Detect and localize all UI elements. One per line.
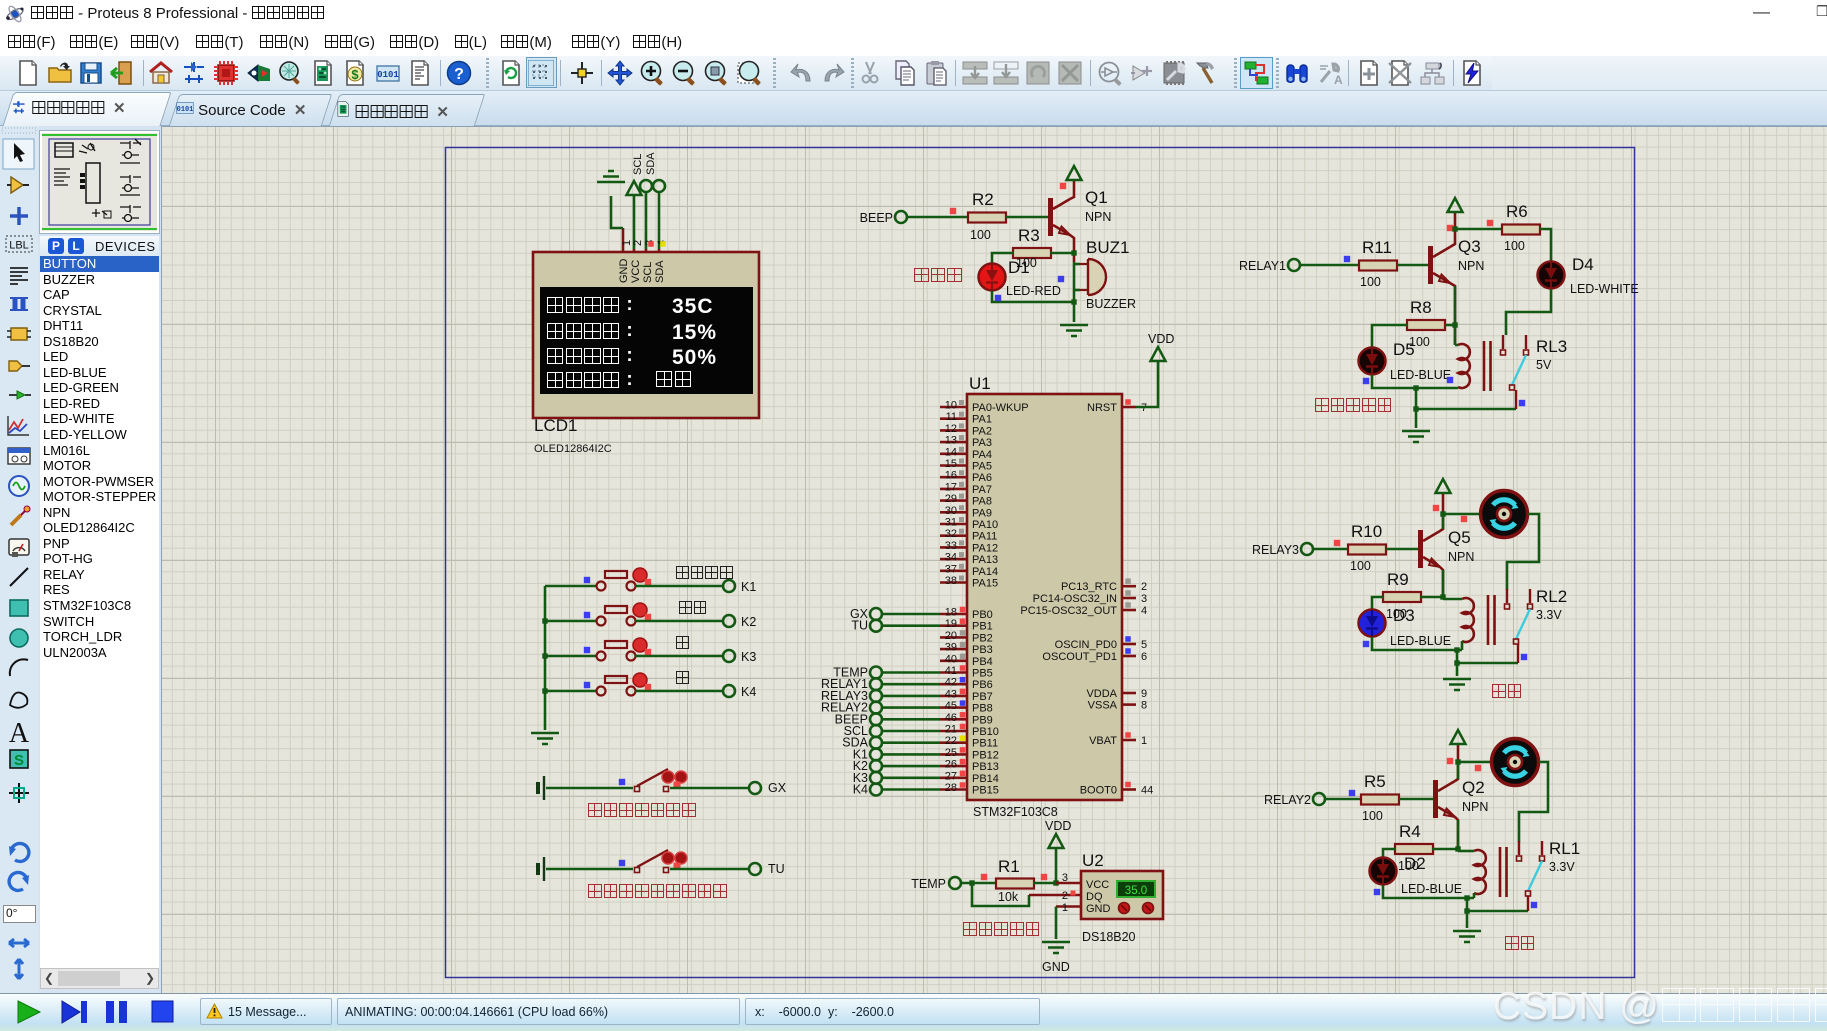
svg-text:K3: K3 (741, 650, 756, 664)
svg-text:LCD1: LCD1 (534, 416, 577, 435)
svg-text:0101: 0101 (377, 70, 399, 80)
svg-text:BOOT0: BOOT0 (1080, 785, 1117, 797)
svg-text:8: 8 (1141, 700, 1147, 712)
svg-text:NPN: NPN (1448, 550, 1474, 564)
svg-text:38: 38 (945, 575, 957, 587)
svg-text:6: 6 (1141, 651, 1147, 663)
svg-text:NPN: NPN (1462, 800, 1488, 814)
svg-text:27: 27 (945, 770, 957, 782)
svg-text:DQ: DQ (1086, 891, 1103, 903)
svg-text:VDD: VDD (1045, 819, 1071, 833)
svg-text:3: 3 (1141, 593, 1147, 605)
svg-text:LED-WHITE: LED-WHITE (1570, 282, 1639, 296)
svg-text:PA7: PA7 (972, 484, 992, 496)
svg-text:PB15: PB15 (972, 785, 999, 797)
svg-text:PA13: PA13 (972, 554, 998, 566)
svg-text:37: 37 (945, 563, 957, 575)
svg-text:GND: GND (618, 259, 630, 284)
svg-text:?: ? (454, 66, 464, 83)
svg-text:VBAT: VBAT (1089, 735, 1117, 747)
svg-text:28: 28 (945, 782, 957, 794)
svg-text:PA2: PA2 (972, 425, 992, 437)
svg-text:VCC: VCC (1086, 879, 1109, 891)
svg-text:K2: K2 (741, 615, 756, 629)
svg-text:D3: D3 (1393, 606, 1415, 625)
svg-text:40: 40 (945, 653, 957, 665)
svg-text:0101: 0101 (177, 106, 194, 114)
svg-text:SCL: SCL (632, 154, 644, 175)
svg-text:SCL: SCL (642, 262, 654, 283)
svg-text:LBL: LBL (9, 240, 29, 252)
svg-text:VSSA: VSSA (1088, 700, 1118, 712)
svg-text:Q2: Q2 (1462, 778, 1485, 797)
svg-text:11: 11 (946, 411, 957, 423)
svg-text:BUZ1: BUZ1 (1086, 238, 1129, 257)
svg-text:1: 1 (1141, 735, 1147, 747)
svg-text:4: 4 (1141, 605, 1147, 617)
svg-text:21: 21 (945, 724, 957, 736)
svg-text:10: 10 (945, 400, 957, 412)
svg-text:5V: 5V (1536, 358, 1552, 372)
svg-text:22: 22 (945, 735, 957, 747)
svg-text:PB6: PB6 (972, 679, 993, 691)
svg-text:29: 29 (945, 493, 957, 505)
svg-text:SDA: SDA (654, 260, 666, 283)
svg-text:R4: R4 (1399, 822, 1421, 841)
svg-text:33: 33 (945, 540, 957, 552)
svg-text:R3: R3 (1018, 226, 1040, 245)
svg-text:STM32F103C8: STM32F103C8 (973, 805, 1058, 819)
svg-text:PB7: PB7 (972, 691, 993, 703)
svg-text:$: $ (351, 67, 359, 82)
svg-text:PC15-OSC32_OUT: PC15-OSC32_OUT (1020, 605, 1117, 617)
svg-text:PA8: PA8 (972, 496, 992, 508)
svg-text:100: 100 (970, 228, 991, 242)
svg-text:GX: GX (768, 781, 787, 795)
svg-text:20: 20 (945, 630, 957, 642)
svg-text:R10: R10 (1351, 522, 1382, 541)
svg-text:NPN: NPN (1085, 210, 1111, 224)
svg-text:VDD: VDD (1148, 332, 1174, 346)
svg-text:Q1: Q1 (1085, 188, 1108, 207)
svg-text:RELAY3: RELAY3 (1252, 543, 1299, 557)
svg-text:35.0: 35.0 (1125, 885, 1147, 897)
svg-text:41: 41 (945, 665, 957, 677)
svg-text:PB3: PB3 (972, 644, 993, 656)
svg-text:PA5: PA5 (972, 461, 992, 473)
svg-text:K4: K4 (741, 685, 756, 699)
svg-text:30: 30 (945, 505, 957, 517)
svg-text:LED-BLUE: LED-BLUE (1390, 634, 1451, 648)
svg-text:100: 100 (1504, 239, 1525, 253)
svg-text:PB2: PB2 (972, 632, 993, 644)
svg-text:PA9: PA9 (972, 507, 992, 519)
svg-text:19: 19 (945, 618, 957, 630)
svg-text:R2: R2 (972, 190, 994, 209)
svg-text:PA15: PA15 (972, 578, 998, 590)
svg-text:NPN: NPN (1458, 259, 1484, 273)
svg-text:PA1: PA1 (972, 414, 992, 426)
svg-text:D2: D2 (1404, 854, 1426, 873)
svg-text:16: 16 (945, 470, 957, 482)
svg-text:PA6: PA6 (972, 472, 992, 484)
svg-text:U1: U1 (969, 374, 991, 393)
svg-text:15: 15 (945, 458, 957, 470)
svg-text:BEEP: BEEP (860, 211, 893, 225)
svg-text:14: 14 (945, 446, 957, 458)
svg-text:PA14: PA14 (972, 566, 998, 578)
svg-text:LED-BLUE: LED-BLUE (1401, 882, 1462, 896)
svg-text:2: 2 (1062, 890, 1068, 902)
svg-text:13: 13 (945, 435, 957, 447)
svg-text:100: 100 (1360, 275, 1381, 289)
svg-text:34: 34 (945, 552, 957, 564)
svg-text:GND: GND (1086, 903, 1111, 915)
svg-text:43: 43 (945, 688, 957, 700)
svg-text:U2: U2 (1082, 851, 1104, 870)
svg-text:1: 1 (1062, 902, 1068, 914)
svg-text:D4: D4 (1572, 255, 1594, 274)
svg-text:BUZZER: BUZZER (1086, 297, 1136, 311)
svg-text:26: 26 (945, 759, 957, 771)
svg-text:R9: R9 (1387, 570, 1409, 589)
svg-text:OSCOUT_PD1: OSCOUT_PD1 (1042, 651, 1117, 663)
svg-text:TU: TU (851, 619, 868, 633)
svg-text:R11: R11 (1362, 238, 1392, 257)
svg-text:100: 100 (1362, 809, 1383, 823)
svg-text:GND: GND (1042, 960, 1070, 974)
svg-text:VDDA: VDDA (1086, 688, 1117, 700)
svg-text:17: 17 (945, 481, 957, 493)
svg-text:10k: 10k (998, 890, 1019, 904)
svg-text:45: 45 (945, 700, 957, 712)
svg-text:39: 39 (945, 642, 957, 654)
svg-text:A: A (9, 718, 30, 749)
svg-text:OSCIN_PD0: OSCIN_PD0 (1055, 639, 1117, 651)
svg-text:LED-BLUE: LED-BLUE (1390, 368, 1451, 382)
svg-text:D1: D1 (1008, 258, 1030, 277)
svg-text:PB5: PB5 (972, 668, 993, 680)
svg-text:PB8: PB8 (972, 703, 993, 715)
svg-text:A: A (1334, 73, 1343, 86)
svg-text:PA12: PA12 (972, 542, 998, 554)
svg-text:DS18B20: DS18B20 (1082, 930, 1136, 944)
svg-text:OLED12864I2C: OLED12864I2C (534, 443, 612, 455)
svg-text:PB14: PB14 (972, 773, 999, 785)
svg-text:D5: D5 (1393, 340, 1415, 359)
svg-text:RELAY1: RELAY1 (1239, 259, 1286, 273)
svg-text:PB1: PB1 (972, 621, 993, 633)
svg-text:PA3: PA3 (972, 437, 992, 449)
svg-text:PB0: PB0 (972, 609, 993, 621)
svg-text:18: 18 (945, 607, 957, 619)
svg-text:PC13_RTC: PC13_RTC (1061, 581, 1117, 593)
svg-text:RL1: RL1 (1549, 839, 1580, 858)
svg-text:PB4: PB4 (972, 656, 993, 668)
svg-text:PA10: PA10 (972, 519, 998, 531)
svg-text:R1: R1 (998, 857, 1020, 876)
svg-text:2: 2 (632, 240, 644, 246)
svg-text:Q3: Q3 (1458, 237, 1481, 256)
svg-text:PA11: PA11 (972, 531, 997, 543)
svg-text:Q5: Q5 (1448, 528, 1471, 547)
svg-text:NRST: NRST (1087, 402, 1117, 414)
svg-text:K1: K1 (741, 580, 756, 594)
svg-text:46: 46 (945, 712, 957, 724)
svg-text:PA4: PA4 (972, 449, 992, 461)
svg-text:RL2: RL2 (1536, 587, 1567, 606)
svg-text:2: 2 (1141, 581, 1147, 593)
svg-text:SDA: SDA (645, 152, 657, 175)
svg-text:44: 44 (1141, 785, 1153, 797)
svg-text:TEMP: TEMP (911, 877, 946, 891)
svg-text:31: 31 (945, 517, 957, 529)
svg-text:32: 32 (945, 528, 957, 540)
svg-text:100: 100 (1350, 559, 1371, 573)
svg-text:PB11: PB11 (972, 738, 998, 750)
svg-text:42: 42 (945, 677, 957, 689)
svg-text:5: 5 (1141, 639, 1147, 651)
svg-text:PB12: PB12 (972, 749, 999, 761)
svg-text:RELAY2: RELAY2 (1264, 793, 1311, 807)
svg-text:R5: R5 (1364, 772, 1386, 791)
svg-text:PB13: PB13 (972, 761, 999, 773)
svg-text:3: 3 (1062, 872, 1068, 884)
svg-text:3.3V: 3.3V (1549, 860, 1575, 874)
svg-text:R6: R6 (1506, 202, 1528, 221)
svg-text:PB9: PB9 (972, 714, 993, 726)
svg-text:PA0-WKUP: PA0-WKUP (972, 402, 1029, 414)
svg-text:TU: TU (768, 862, 785, 876)
svg-text:LED-RED: LED-RED (1006, 284, 1061, 298)
svg-text:3.3V: 3.3V (1536, 608, 1562, 622)
svg-text:S: S (14, 752, 24, 769)
svg-text:PB10: PB10 (972, 726, 999, 738)
svg-text:RL3: RL3 (1536, 337, 1567, 356)
svg-text:VCC: VCC (630, 260, 642, 283)
svg-text:PC14-OSC32_IN: PC14-OSC32_IN (1033, 593, 1117, 605)
svg-text:25: 25 (945, 747, 957, 759)
svg-text:9: 9 (1141, 688, 1147, 700)
svg-text:K4: K4 (853, 783, 868, 797)
svg-text:R8: R8 (1410, 298, 1432, 317)
svg-text:12: 12 (945, 423, 957, 435)
